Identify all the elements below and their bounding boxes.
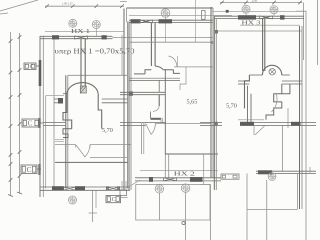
svg-text:C: C xyxy=(28,119,33,127)
svg-text:5,70: 5,70 xyxy=(102,127,113,134)
svg-text:ΗΧ 1: ΗΧ 1 xyxy=(71,28,90,35)
svg-text:υπερ ΗΧ 1 =0,70x5,70: υπερ ΗΧ 1 =0,70x5,70 xyxy=(55,48,135,56)
svg-text:5,70: 5,70 xyxy=(226,103,237,110)
svg-text:1.00 2.35: 1.00 2.35 xyxy=(62,3,73,6)
svg-text:C: C xyxy=(112,196,116,203)
svg-text:ΗΧ 2: ΗΧ 2 xyxy=(174,170,195,177)
svg-text:2.35: 2.35 xyxy=(252,0,257,3)
svg-text:C: C xyxy=(27,165,32,174)
svg-text:5,65: 5,65 xyxy=(187,99,198,106)
